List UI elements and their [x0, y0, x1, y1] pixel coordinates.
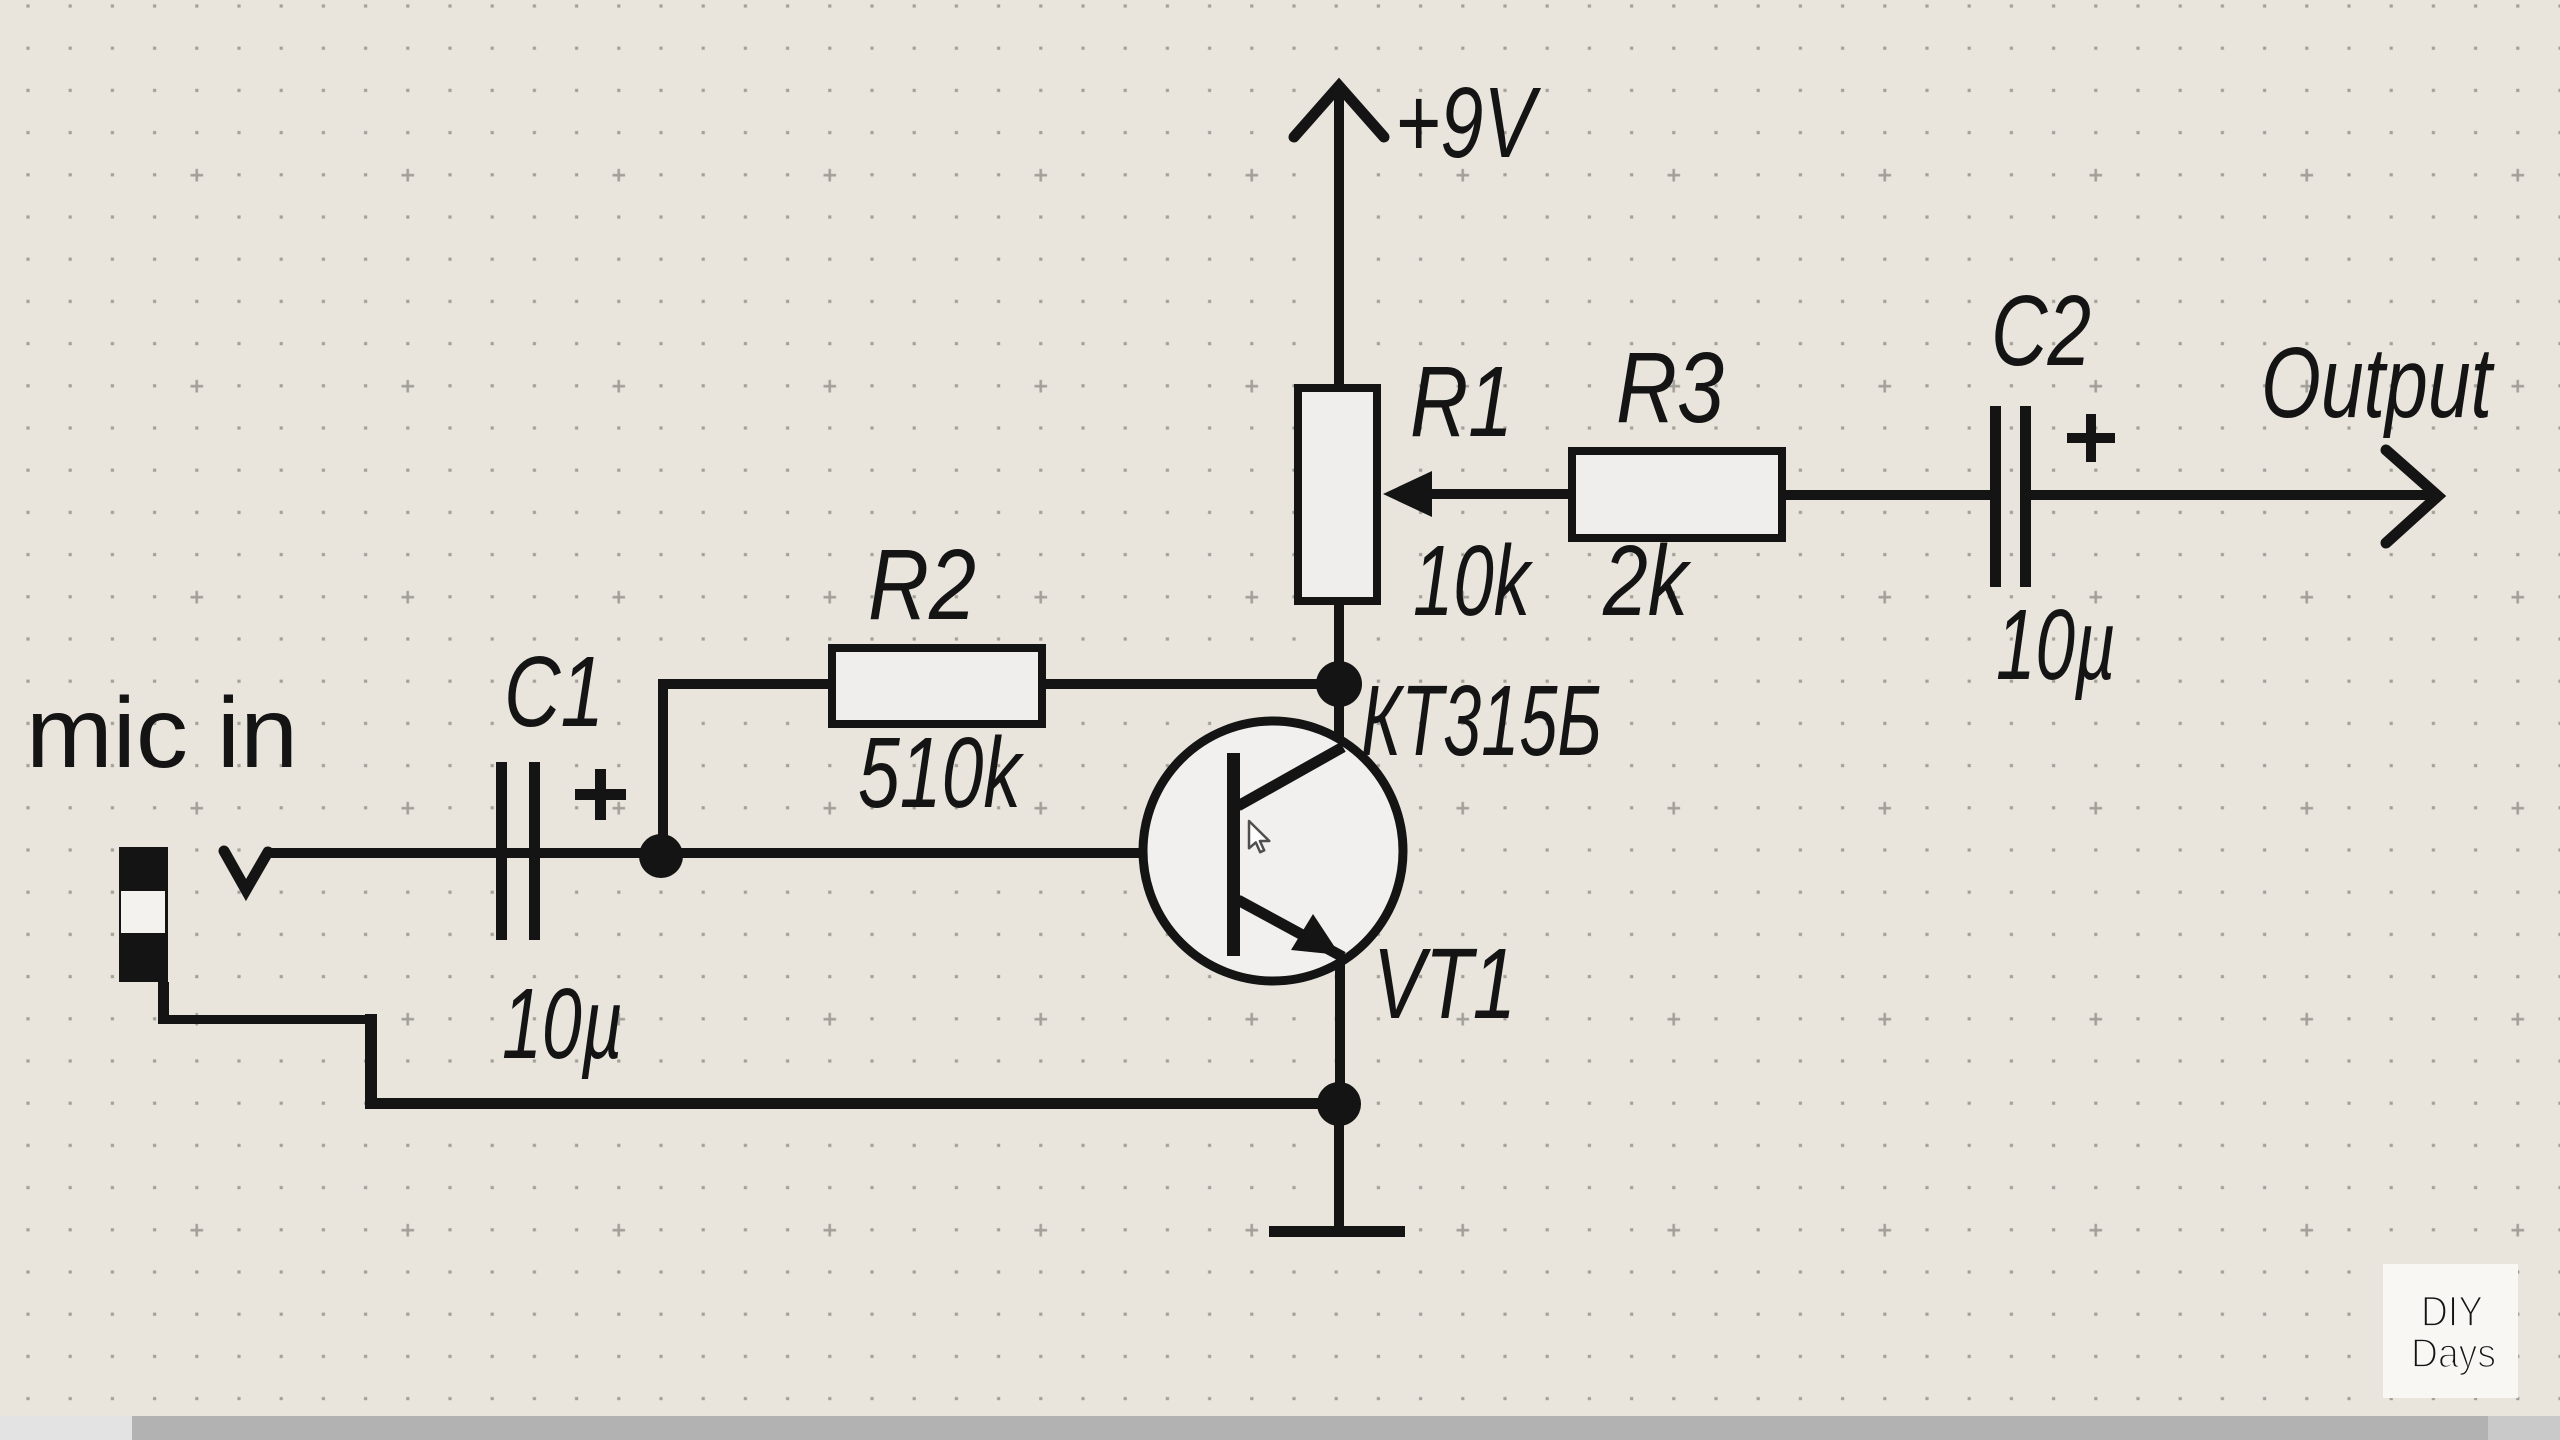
svg-text:mic in: mic in: [26, 677, 298, 789]
svg-text:R2: R2: [868, 529, 976, 641]
svg-text:510k: 510k: [858, 717, 1025, 829]
svg-text:2k: 2k: [1602, 525, 1692, 637]
svg-text:10k: 10k: [1413, 525, 1534, 637]
svg-text:10µ: 10µ: [1996, 589, 2116, 701]
svg-text:Days: Days: [2411, 1330, 2496, 1376]
svg-text:VT1: VT1: [1373, 928, 1516, 1040]
svg-text:10µ: 10µ: [502, 968, 623, 1080]
svg-text:Output: Output: [2261, 327, 2495, 439]
svg-text:R3: R3: [1616, 332, 1724, 444]
svg-text:+9V: +9V: [1395, 67, 1541, 179]
svg-text:DIY: DIY: [2421, 1288, 2483, 1336]
svg-text:C2: C2: [1991, 275, 2091, 387]
svg-text:КТ315Б: КТ315Б: [1361, 665, 1602, 777]
svg-text:C1: C1: [504, 636, 604, 748]
svg-text:R1: R1: [1410, 346, 1513, 458]
